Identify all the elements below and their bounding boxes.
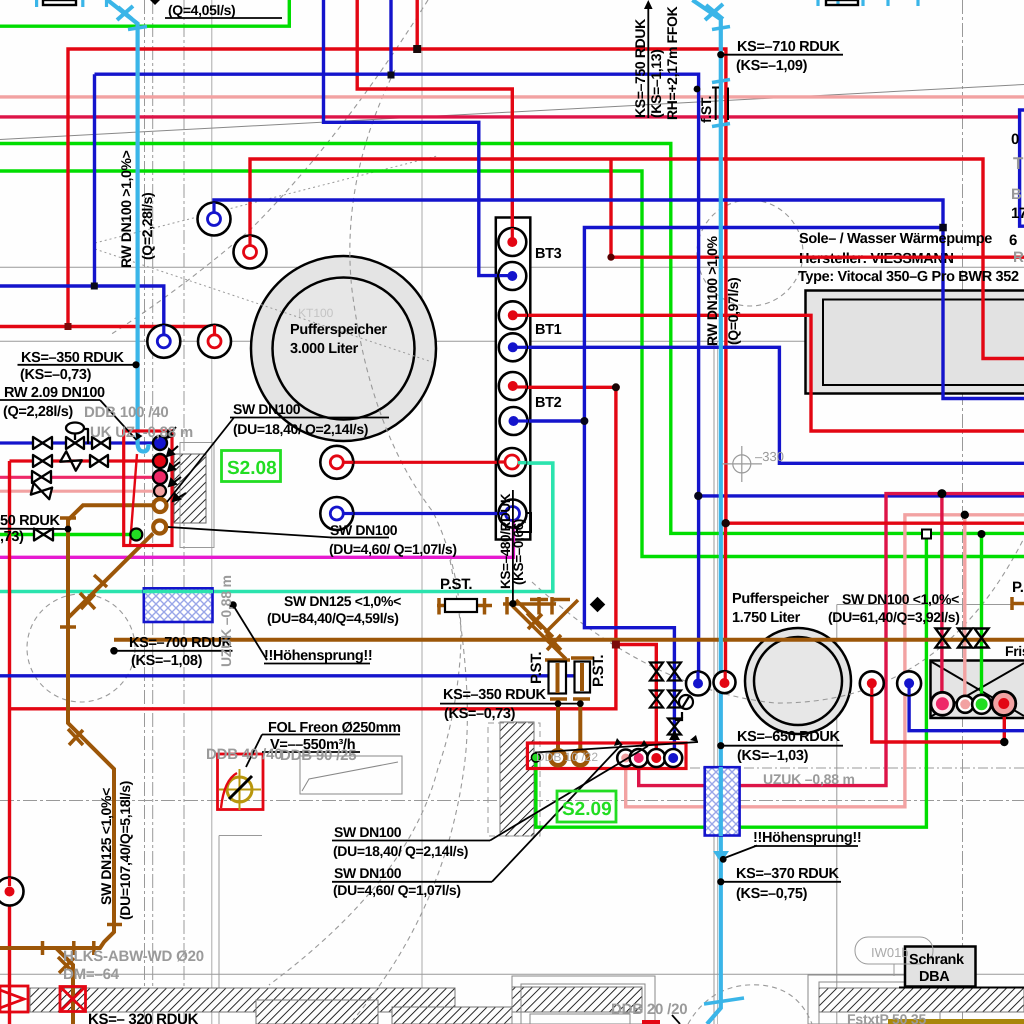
pump circle bottom-left red — [0, 878, 24, 906]
svg-text:(Q=2,28l/s): (Q=2,28l/s) — [139, 193, 155, 260]
frischwasser station box — [931, 661, 1024, 719]
PST vertical stub rect 2 — [575, 662, 591, 693]
dashed circle left — [27, 594, 135, 702]
BT column box — [496, 218, 531, 540]
svg-text:KS=–750 RDUK: KS=–750 RDUK — [632, 19, 648, 118]
connector red box — [124, 431, 172, 546]
svg-text:(Q=0,97l/s): (Q=0,97l/s) — [725, 278, 741, 345]
svg-text:SW DN100: SW DN100 — [334, 865, 402, 881]
valves on blue x674 — [668, 663, 681, 735]
pump circle P4 — [198, 325, 231, 358]
valve group pink salmon rows — [32, 471, 51, 483]
wire red left vertical x9 — [8, 461, 11, 1024]
svg-text:!!Höhensprung!!: !!Höhensprung!! — [264, 648, 372, 664]
wire salmon drop to frischwasser — [963, 515, 966, 704]
wire brown diagonal from connector — [68, 534, 153, 619]
IW01b stadium — [855, 937, 933, 976]
svg-text:(DU=84,40/Q=4,59l/s): (DU=84,40/Q=4,59l/s) — [267, 610, 399, 626]
svg-text:(DU=4,60/ Q=1,07l/s): (DU=4,60/ Q=1,07l/s) — [329, 541, 457, 557]
svg-text:(KS=–1,09): (KS=–1,09) — [736, 58, 808, 74]
svg-text:Type: Vitocal 350–G Pro BWR 35: Type: Vitocal 350–G Pro BWR 352 — [798, 269, 1019, 285]
svg-text:P.ST.: P.ST. — [528, 652, 545, 684]
svg-text:SW DN100 <1,0%<: SW DN100 <1,0%< — [842, 591, 959, 607]
wire brown segment y604 with diagonal — [503, 604, 566, 659]
svg-text:6: 6 — [1009, 232, 1017, 249]
connector circle brown2 — [153, 521, 166, 534]
wire brown SW DN125 drop — [0, 505, 152, 948]
wire salmon loop manifold — [626, 515, 1024, 807]
red X box bottom — [60, 987, 86, 1012]
turquoise over hatch1 — [143, 590, 213, 594]
FOL gold symbol — [219, 769, 261, 810]
wall hatch band C — [392, 1007, 512, 1024]
brown X valve branch bottom — [58, 957, 74, 973]
wire blue y227 to manifold — [584, 228, 943, 759]
room boundary bottom-left — [219, 836, 262, 1024]
wire crimson drop to frischwasser — [940, 494, 943, 700]
valve black bowtie on green line — [34, 529, 53, 541]
frischwasser circle crimson — [931, 692, 954, 715]
brown X valve lower diagonal — [68, 729, 83, 745]
BT circle 8 blue ring — [499, 500, 527, 529]
svg-text:3.000 Liter: 3.000 Liter — [290, 341, 359, 357]
pump circle P3 — [147, 325, 180, 358]
arrow KS750 leader top — [644, 0, 653, 9]
survey cross — [722, 446, 762, 482]
dashed arc frischwasser — [532, 538, 1024, 703]
pump circle P5 — [320, 446, 353, 479]
wire red y326 — [0, 327, 215, 342]
connector circle brown1 — [154, 499, 167, 512]
svg-text:DDB 40 /40: DDB 40 /40 — [206, 746, 282, 763]
svg-text:DDB 10 /22: DDB 10 /22 — [536, 750, 598, 764]
svg-text:(Q=4,05l/s): (Q=4,05l/s) — [168, 2, 235, 18]
wire blue right edge stub — [1020, 110, 1024, 226]
grid dashdot vertical x153 — [152, 0, 154, 1024]
heat pump outer box — [806, 291, 1024, 394]
frischwasser circle red — [992, 692, 1016, 716]
svg-text:Pufferspeicher: Pufferspeicher — [732, 591, 829, 607]
wire turquoise SW DN125 — [0, 463, 553, 591]
svg-text:BT1: BT1 — [535, 322, 562, 338]
svg-text:(KS=–1,08): (KS=–1,08) — [131, 653, 203, 669]
pump circle P1 — [198, 203, 231, 236]
wall hatch block D — [512, 987, 642, 1012]
red tiny box bottom middle — [642, 1020, 660, 1024]
svg-text:1.750 Liter: 1.750 Liter — [732, 610, 801, 626]
red valve symbol left edge — [0, 986, 28, 1012]
gold line bottom right — [888, 1019, 1024, 1024]
svg-text:P.: P. — [1012, 579, 1024, 596]
svg-text:KS=–370 RDUK: KS=–370 RDUK — [736, 866, 839, 882]
connector circle blue — [153, 436, 167, 450]
wire brown PST stubs to manifold — [558, 699, 580, 758]
BT circle 1 BT3 red — [498, 228, 526, 256]
svg-text:BT3: BT3 — [535, 246, 562, 262]
dashdot horizontal y768 right — [690, 767, 1024, 769]
grey horizontal y341 — [0, 340, 1024, 342]
wall hatch W3 — [500, 722, 534, 836]
wire crimson y117 — [0, 115, 1020, 118]
black box top left — [43, 0, 76, 5]
valve X green drop — [975, 629, 989, 648]
frischwasser circle salmon — [957, 696, 974, 713]
svg-text:RW DN100 >1,0%>: RW DN100 >1,0%> — [118, 150, 134, 268]
wire red BT1 loop — [512, 315, 1024, 431]
dashed arc bottom — [688, 985, 812, 1024]
brown X valve on diagonal connector — [80, 593, 95, 609]
svg-text:Schrank: Schrank — [909, 952, 965, 968]
svg-text:KS=–700 RDUK: KS=–700 RDUK — [129, 635, 232, 651]
leader dots — [65, 51, 727, 885]
connector circle green — [130, 529, 142, 541]
wire blue y676 — [0, 674, 588, 677]
wire blue pump to BT y513 — [337, 512, 513, 515]
valve X salmon drop — [958, 629, 972, 648]
schrank DBA box — [905, 947, 976, 987]
fST bracket — [712, 88, 728, 121]
grey dashed rect W3 — [488, 723, 540, 836]
cyan through hatch2 — [719, 767, 723, 836]
svg-text:UK UZ -0,88 m: UK UZ -0,88 m — [90, 424, 193, 441]
wire blue x391 stub — [389, 0, 392, 75]
wire cyan RW right full height — [692, 0, 720, 1024]
FOL red box — [218, 754, 264, 810]
wire green y143 with drop x671 — [0, 144, 1024, 534]
dashed circle near Sole text — [697, 200, 803, 306]
wire crimson y477 connector — [0, 476, 160, 479]
grid dashdot vertical x144 — [144, 0, 146, 1024]
svg-text:KS=– 320 RDUK: KS=– 320 RDUK — [88, 1011, 199, 1024]
svg-text:SW DN100: SW DN100 — [233, 401, 301, 417]
wall hatch block B — [256, 1000, 378, 1024]
wire red y49 main loop — [68, 49, 1024, 523]
valves on red x657 — [650, 663, 663, 708]
wire brown upper diagonals cluster — [516, 600, 578, 637]
svg-text:(DU=107,40/Q=5,18l/s): (DU=107,40/Q=5,18l/s) — [117, 781, 133, 920]
tank pufferspeicher 3000 inner — [273, 278, 415, 420]
dotted sight ray 2 — [95, 249, 432, 362]
manifold green tick — [531, 753, 540, 762]
BT circle 6 blue — [500, 407, 529, 435]
manifold circle red — [647, 749, 665, 767]
svg-text:T: T — [1013, 154, 1024, 173]
wire red y461 connector — [10, 459, 161, 462]
pump circle P6 — [320, 497, 353, 530]
wire salmon y97 — [0, 95, 1024, 98]
svg-text:DDB 90 /25: DDB 90 /25 — [280, 747, 356, 764]
svg-text:(KS=–1,03): (KS=–1,03) — [737, 748, 809, 764]
PST vertical stub rect 1 — [549, 662, 567, 694]
wire brown main KS700 — [114, 638, 1024, 642]
svg-text:S2.09: S2.09 — [562, 799, 612, 820]
brown flange ticks — [43, 518, 1013, 955]
manifold circle salmon — [617, 750, 634, 767]
svg-text:17: 17 — [1011, 205, 1024, 222]
svg-text:50 RDUK: 50 RDUK — [0, 513, 60, 529]
FOL black tick — [229, 776, 252, 799]
heat pump inner box — [823, 300, 1024, 386]
svg-text:KS=–350 RDUK: KS=–350 RDUK — [21, 350, 124, 366]
wire brown branch bottom — [56, 948, 73, 1024]
svg-text:SW DN125 <1,0%<: SW DN125 <1,0%< — [284, 593, 401, 609]
wire green y171 with drop x642 — [0, 171, 1024, 557]
svg-text:FOL Freon Ø250mm: FOL Freon Ø250mm — [268, 720, 401, 736]
wire green S209 loop — [536, 534, 927, 827]
valve X crimson drop — [936, 629, 950, 648]
brown X valve at main crossing — [546, 634, 561, 650]
grid dashdot vertical x962 — [962, 0, 964, 1024]
svg-text:B: B — [1011, 186, 1022, 203]
manifold circle brown2 — [573, 750, 588, 765]
manifold circle blue — [664, 749, 682, 767]
svg-text:(KS=–0,73): (KS=–0,73) — [444, 706, 516, 722]
svg-text:Sole– / Wasser Wärmepumpe: Sole– / Wasser Wärmepumpe — [799, 231, 992, 247]
blue hatch rect 2 — [705, 767, 740, 835]
black box top right — [826, 0, 858, 5]
dashed curve B2 — [353, 560, 467, 1020]
wall edge black — [899, 987, 1024, 989]
BT circle 7 red ring — [498, 448, 527, 476]
wall hatch W1 near connector — [174, 454, 206, 523]
wire blue x323 to BT column — [324, 0, 513, 276]
pump circle fr red left — [860, 671, 884, 695]
arrow top black — [150, 0, 160, 5]
svg-text:–330: –330 — [755, 449, 784, 464]
svg-text:0: 0 — [1011, 131, 1019, 148]
grey slope line — [0, 85, 1024, 140]
dashed curve A — [110, 0, 428, 335]
arrowhead SW leaders — [614, 735, 698, 747]
connector circle red — [153, 454, 167, 468]
wire cyan RW left — [108, 0, 149, 452]
svg-text:UZUK –0,88 m: UZUK –0,88 m — [763, 771, 855, 787]
grey horizontal y974 — [0, 973, 1024, 975]
wire red drop x726 to pump — [724, 523, 727, 682]
wire red pump to BT y462 — [337, 461, 512, 464]
blue hatch rect 1 — [144, 588, 213, 622]
tank pufferspeicher 1750 inner — [754, 637, 842, 725]
svg-text:KS=–710 RDUK: KS=–710 RDUK — [737, 39, 840, 55]
svg-text:(DU=61,40/Q=3,92l/s): (DU=61,40/Q=3,92l/s) — [828, 609, 960, 625]
manifold box red — [527, 743, 686, 769]
svg-text:SW DN125 <1,0%<: SW DN125 <1,0%< — [98, 788, 114, 905]
svg-text:(DU=4,60/ Q=1,07l/s): (DU=4,60/ Q=1,07l/s) — [333, 882, 461, 898]
wire magenta — [0, 517, 513, 557]
wire blue y200 long — [214, 200, 1024, 399]
wire red BT2 to manifold and y709 — [10, 387, 657, 758]
wire green y534 left stub — [0, 533, 133, 536]
wire blue frischwasser bottom — [909, 683, 1024, 731]
arrowhead blue circle manifold — [669, 730, 680, 740]
svg-text:BT2: BT2 — [535, 395, 562, 411]
grey outline rect W1 — [180, 443, 214, 548]
svg-text:P.ST.: P.ST. — [440, 576, 472, 593]
svg-text:SW DN100: SW DN100 — [334, 824, 402, 840]
label S208 — [222, 451, 281, 482]
label S209 — [557, 791, 616, 822]
frischwasser circle green — [972, 695, 991, 714]
valve cyan X right — [705, 4, 723, 20]
wire blue y75 to pump1750 — [0, 74, 699, 683]
wire red x417 stub — [416, 0, 419, 49]
BT circle 5 BT2 red — [499, 372, 527, 400]
pump circle 1750 blue — [686, 672, 710, 696]
svg-text:Hersteller: VIESSMANN: Hersteller: VIESSMANN — [799, 251, 954, 267]
BT circle 2 blue — [498, 262, 526, 290]
svg-text:KS=–650 RDUK: KS=–650 RDUK — [737, 729, 840, 745]
pump circle P2 — [234, 236, 267, 269]
wire salmon y491 connector — [0, 490, 160, 493]
BT circle 4 blue — [499, 333, 527, 361]
black diamond — [590, 597, 606, 613]
open square marker green — [922, 530, 931, 539]
connector red diagonal — [130, 454, 137, 545]
manifold circle pink — [630, 749, 648, 767]
black small rect KS480 — [517, 513, 531, 532]
wire brown right edge PST stub — [1012, 602, 1024, 606]
svg-text:P.ST.: P.ST. — [590, 655, 607, 687]
wire crimson loop manifold — [639, 494, 1024, 786]
svg-text:DDB 100 /40: DDB 100 /40 — [84, 404, 169, 421]
valve group blue y443 — [31, 423, 110, 500]
nested grey rects bottom middle — [512, 976, 655, 1024]
svg-text:DM=–64: DM=–64 — [63, 966, 120, 983]
room boundary right — [837, 605, 1024, 1024]
svg-text:(KS=–1,13): (KS=–1,13) — [648, 50, 664, 118]
wire red x357 to BT3 — [357, 0, 512, 242]
grid dashdot vertical x184 — [183, 0, 185, 1024]
wire red frischwasser bottom — [872, 683, 1005, 742]
svg-text:HLKS-ABW-WD Ø20: HLKS-ABW-WD Ø20 — [63, 948, 204, 965]
wall hatch band A bottom-left — [30, 988, 455, 1012]
svg-text:UZUK –0,88 m: UZUK –0,88 m — [218, 575, 234, 667]
pump circle fr blue — [897, 671, 921, 695]
svg-text:(Q=2,28l/s): (Q=2,28l/s) — [3, 404, 73, 420]
wire brown PST stub1 — [437, 604, 492, 608]
svg-text:(DU=18,40/ Q=2,14l/s): (DU=18,40/ Q=2,14l/s) — [333, 843, 468, 859]
svg-text:SW DN100: SW DN100 — [330, 522, 398, 538]
valve cyan X left — [117, 6, 133, 20]
cyan break ticks — [704, 27, 744, 1005]
dotted sight ray 1 — [95, 156, 437, 243]
arrowhead RW leader — [136, 432, 143, 440]
FOL red curve — [221, 773, 237, 808]
svg-text:Fris: Fris — [1005, 643, 1024, 659]
svg-text:IW01b: IW01b — [871, 945, 909, 960]
svg-text:S2.08: S2.08 — [227, 458, 277, 479]
svg-text:RH=+2,17m FFOK: RH=+2,17m FFOK — [664, 6, 680, 120]
wall line double vertical x714 — [713, 341, 715, 1024]
grey horizontal y267 — [0, 266, 1024, 268]
svg-text:(DU=18,40/ Q=2,14l/s): (DU=18,40/ Q=2,14l/s) — [233, 421, 368, 437]
svg-text:!!Höhensprung!!: !!Höhensprung!! — [753, 830, 861, 846]
tank pufferspeicher 3000 outer — [251, 256, 436, 441]
PST symbol horizontal rect — [445, 599, 477, 612]
valve circle-slash symbol — [675, 695, 693, 720]
arrowheads at connector circles — [166, 427, 186, 501]
wire green drop to frischwasser — [980, 534, 983, 704]
grid solid vertical x422 — [421, 0, 423, 1024]
wire red y257 — [611, 159, 1024, 257]
ramp symbol grey box — [300, 756, 402, 794]
tank pufferspeicher 1750 outer — [745, 628, 851, 734]
wire blue BT1 loop — [512, 347, 1024, 463]
svg-text:KS=–350 RDUK: KS=–350 RDUK — [443, 687, 546, 703]
wire green supply top-left — [0, 0, 289, 26]
connector circle salmon — [154, 485, 166, 497]
dashed curve B1 — [269, 70, 461, 985]
svg-text:DBA: DBA — [919, 969, 950, 985]
wall hatch band E bottom-right — [819, 988, 1024, 1012]
wire blue y496 — [698, 494, 1024, 497]
svg-text:(KS=–0,73): (KS=–0,73) — [20, 367, 92, 383]
pump circle 1750 red — [714, 671, 736, 693]
grid solid vertical x212 — [211, 0, 213, 1024]
grey rect outline bottom right — [808, 975, 940, 1024]
svg-text:DDB 20 /20: DDB 20 /20 — [611, 1001, 687, 1018]
manifold circle brown1 — [551, 750, 566, 765]
svg-text:,73): ,73) — [0, 529, 24, 545]
brown X valve upper cluster — [527, 613, 542, 629]
svg-text:KT100: KT100 — [298, 306, 334, 320]
svg-text:Pufferspeicher: Pufferspeicher — [290, 322, 387, 338]
svg-text:f.ST.: f.ST. — [698, 96, 714, 123]
cyan top edge ticks — [37, 0, 918, 7]
cyan hoehensprung arrow — [713, 851, 729, 863]
svg-text:(KS=–0,75): (KS=–0,75) — [736, 886, 808, 902]
wire blue y443 connector — [0, 441, 160, 444]
dashdot horizontal y800 — [0, 800, 1024, 802]
valve group red y461 — [33, 455, 52, 467]
svg-text:R: R — [1013, 249, 1024, 266]
wire red y159 long — [250, 159, 1024, 359]
svg-text:FstxtP 50 35: FstxtP 50 35 — [847, 1011, 926, 1024]
svg-text:(KS=–0,66): (KS=–0,66) — [511, 519, 526, 585]
BT circle 3 BT1 red — [499, 301, 527, 329]
brown pipe through PST rects — [558, 663, 583, 693]
svg-text:RW DN100 >1,0%: RW DN100 >1,0% — [704, 235, 720, 346]
svg-text:RW 2.09 DN100: RW 2.09 DN100 — [4, 385, 105, 401]
connector circle pink — [153, 470, 167, 484]
wire blue BT2 stub — [512, 419, 584, 422]
